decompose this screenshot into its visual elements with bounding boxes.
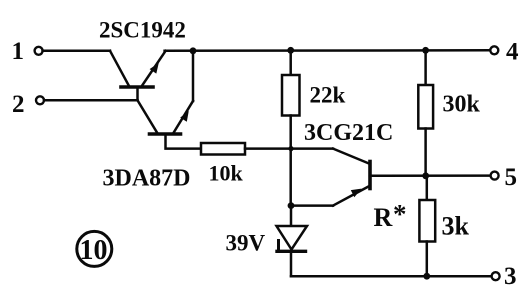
- wire: node 5 down to 3k: [426, 176, 429, 200]
- wire: node to zener anode: [290, 206, 293, 226]
- zener diode 39V anode triangle: [277, 226, 308, 250]
- svg-text:2: 2: [12, 91, 25, 118]
- zener diode cathode bar: [277, 250, 306, 253]
- svg-text:39V: 39V: [226, 231, 266, 256]
- wire: top rail: [165, 49, 491, 52]
- svg-text:3DA87D: 3DA87D: [103, 166, 191, 192]
- node: junction bottom rail / 3k: [423, 273, 430, 280]
- node: junction zener top / Q3 emitter: [288, 202, 295, 209]
- wire: Q3 emitter horizontal to zener node: [291, 204, 333, 207]
- transistor Q2 emitter arrow: [180, 111, 189, 122]
- wire: 3k down to bottom rail: [426, 242, 429, 277]
- svg-text:2SC1942: 2SC1942: [99, 18, 186, 43]
- terminal 3: [492, 272, 500, 280]
- terminal 5: [491, 172, 499, 180]
- wire: top rail down to 30k: [424, 50, 427, 85]
- svg-text:22k: 22k: [310, 83, 346, 108]
- wire: 22k down to zener node: [289, 116, 292, 206]
- svg-text:3: 3: [504, 263, 517, 290]
- svg-text:1: 1: [12, 38, 25, 65]
- terminal 2: [36, 96, 44, 104]
- transistor Q3 emitter arrow: [351, 189, 362, 198]
- wire: top rail to 22k: [289, 50, 292, 75]
- svg-text:10k: 10k: [209, 161, 244, 186]
- transistor Q2 emitter lead: [174, 101, 193, 132]
- transistor Q3 emitter diagonal: [333, 187, 369, 206]
- terminal 1: [35, 47, 43, 55]
- wire: terminal 1 to Q1 collector bend: [43, 50, 110, 53]
- node: junction top rail / 22k: [287, 47, 294, 54]
- transistor Q1 2SC1942 base bar: [121, 85, 153, 89]
- wire: zener cathode down to bottom rail: [290, 252, 293, 276]
- wire: Q1 base to Q2 collector diagonal: [138, 100, 158, 132]
- svg-text:10: 10: [80, 235, 108, 266]
- wire: 10k to Q3 collector: [245, 147, 333, 150]
- svg-text:3k: 3k: [442, 212, 470, 241]
- transistor Q1 emitter arrow: [150, 63, 159, 74]
- wire: 30k down to node 5: [424, 129, 427, 176]
- node: junction terminal 5 rail: [422, 172, 429, 179]
- resistor 10k: [201, 143, 245, 155]
- transistor Q3 collector diagonal: [333, 149, 369, 164]
- wire: bottom rail: [291, 275, 492, 278]
- transistor Q1 emitter lead: [143, 51, 166, 85]
- wire: terminal 2 to Q1 base: [44, 99, 138, 102]
- svg-text:*: *: [393, 199, 407, 229]
- resistor 22k: [282, 75, 300, 116]
- terminal 4: [490, 46, 498, 54]
- svg-text:5: 5: [505, 164, 518, 191]
- svg-text:R: R: [374, 203, 393, 232]
- transistor Q2 3DA87D base bar: [150, 132, 181, 136]
- svg-text:3CG21C: 3CG21C: [304, 120, 393, 146]
- resistor 3k (R*): [419, 200, 435, 242]
- resistor 30k: [418, 85, 433, 129]
- svg-text:30k: 30k: [443, 92, 481, 118]
- svg-text:4: 4: [506, 39, 519, 66]
- node: junction top rail / Q2 emitter: [190, 47, 197, 54]
- transistor Q3 base lead to terminal 5: [370, 174, 491, 177]
- transistor Q1 base lead: [136, 87, 139, 100]
- transistor Q2 base lead: [166, 134, 202, 149]
- node: junction top rail / right branch: [422, 47, 429, 54]
- wire: Q2 emitter vertical: [192, 51, 195, 101]
- zener diode cathode left hook: [277, 241, 280, 252]
- node: crossing 22k line / 10k wire: [288, 146, 293, 151]
- wire: Q1 collector diagonal: [110, 51, 129, 86]
- figure number 10 circle: [77, 231, 112, 266]
- transistor Q3 3CG21C base bar: [368, 162, 372, 189]
